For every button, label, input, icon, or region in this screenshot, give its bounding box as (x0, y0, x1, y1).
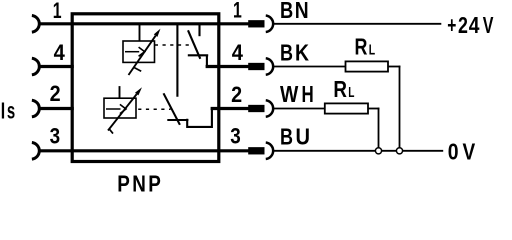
plug pin bar 4 (248, 63, 264, 70)
socket pin 1 right (266, 16, 273, 33)
label Is (1, 98, 15, 124)
label PNP (117, 172, 161, 197)
sensor housing box (72, 14, 219, 162)
wire pin 4 right segment (206, 65, 249, 68)
wire BU 0V rail (273, 150, 443, 152)
switch S1 moving blade (188, 30, 200, 59)
socket pin 4 right (266, 58, 273, 75)
svg-text:2: 2 (231, 83, 242, 107)
wire BK drop to 0V (399, 66, 401, 151)
wire WH drop to 0V (378, 108, 380, 151)
pin number 3 left (50, 124, 61, 149)
svg-text:0: 0 (448, 139, 459, 165)
label 0 V (448, 139, 475, 165)
label RL for WH load (333, 77, 354, 102)
pin number 3 right (230, 124, 241, 149)
label BK (280, 40, 310, 66)
pin number 4 right (232, 40, 243, 65)
svg-text:R: R (333, 77, 347, 102)
wire WH resistor to corner (368, 108, 379, 110)
label BN (280, 0, 309, 23)
sensor B1 supply stub (139, 25, 141, 42)
pin number 4 left (54, 40, 65, 65)
socket pin 4 left (32, 58, 39, 75)
socket pin 3 right (266, 143, 273, 160)
socket pin 2 right (266, 100, 273, 117)
svg-text:W: W (280, 81, 299, 107)
sensor B2 top stub (119, 86, 121, 99)
label +24 V (447, 13, 494, 39)
svg-text:N: N (295, 0, 309, 23)
svg-text:B: B (280, 124, 293, 150)
label BU (280, 123, 310, 150)
svg-text:V: V (463, 140, 476, 165)
sensor B2 actuation arrow shaft (108, 94, 137, 130)
svg-text:4: 4 (54, 40, 65, 65)
svg-text:B: B (280, 0, 293, 23)
sensor B2 actuation arrow head (135, 87, 142, 95)
sensor B2 contact line (106, 108, 121, 110)
wire BN to +24V (273, 23, 441, 25)
svg-text:R: R (355, 34, 368, 60)
wire pin 4 left segment (39, 65, 73, 68)
label RL for BK load (355, 34, 376, 60)
switch S1 fixed contact stub (198, 25, 200, 36)
sensor B2 box (104, 98, 136, 118)
svg-text:4: 4 (232, 40, 243, 65)
socket pin 2 left (32, 100, 39, 117)
svg-text:P: P (148, 172, 161, 194)
switch S2 moving blade (164, 93, 180, 125)
sensor B2 contact chevron (120, 104, 126, 113)
svg-text:1: 1 (233, 0, 242, 23)
wire pin 3 row (39, 149, 248, 152)
sensor B1 contact chevron (139, 47, 145, 56)
switch S1 bottom contact bar (188, 54, 208, 56)
pin number 1 left (53, 0, 62, 24)
plug pin bar 3 (248, 147, 264, 154)
svg-text:3: 3 (50, 124, 61, 149)
socket pin 1 left (32, 16, 39, 33)
socket pin 3 left (32, 143, 39, 160)
pin number 2 right (231, 83, 242, 107)
sensor B2 arrow tail stroke (109, 129, 113, 134)
switch S2 bottom contact bar (167, 119, 188, 121)
dashed link B1 to switch S1 (155, 44, 192, 46)
svg-text:K: K (295, 40, 310, 66)
svg-text:L: L (369, 42, 376, 58)
label WH (280, 81, 314, 107)
switch S1 output riser (206, 55, 208, 66)
junction BK on 0V (396, 148, 402, 154)
svg-text:1: 1 (53, 0, 62, 24)
dashed link B2 to switch S2 (138, 108, 170, 110)
sensor B1 arrow tail stroke (134, 67, 142, 71)
wire pin 2 left segment (39, 107, 73, 110)
svg-text:s: s (7, 98, 15, 124)
switch S2 output jog (187, 109, 212, 127)
wire pin 2 right segment (211, 107, 249, 110)
svg-text:3: 3 (230, 124, 241, 149)
wire BK to load (273, 66, 345, 68)
svg-text:+: + (447, 13, 456, 39)
svg-text:U: U (296, 123, 311, 150)
svg-text:2: 2 (50, 82, 61, 106)
wire BK resistor to corner (388, 66, 400, 68)
sensor B1 actuation arrow head (154, 29, 161, 37)
pin number 2 left (50, 82, 61, 106)
svg-text:L: L (348, 84, 354, 100)
svg-text:V: V (483, 13, 494, 39)
supply rail vertical to S2 (176, 24, 178, 97)
svg-text:P: P (117, 172, 130, 194)
plug pin bar 1 (248, 20, 264, 27)
svg-text:B: B (280, 41, 293, 67)
resistor RL BK (346, 61, 389, 71)
svg-text:I: I (1, 98, 5, 124)
svg-text:4: 4 (469, 13, 480, 38)
pin number 1 right (233, 0, 242, 23)
sensor B1 contact line (125, 51, 139, 53)
svg-text:N: N (132, 172, 146, 194)
sensor B1 actuation arrow shaft (129, 36, 156, 75)
resistor RL WH (325, 103, 368, 113)
sensor B1 box (123, 41, 155, 62)
svg-text:2: 2 (458, 13, 468, 39)
plug pin bar 2 (248, 105, 264, 112)
wire pin 1 row (39, 22, 248, 25)
junction WH on 0V (375, 148, 381, 154)
wire WH to load (273, 108, 325, 110)
svg-text:H: H (302, 82, 314, 107)
